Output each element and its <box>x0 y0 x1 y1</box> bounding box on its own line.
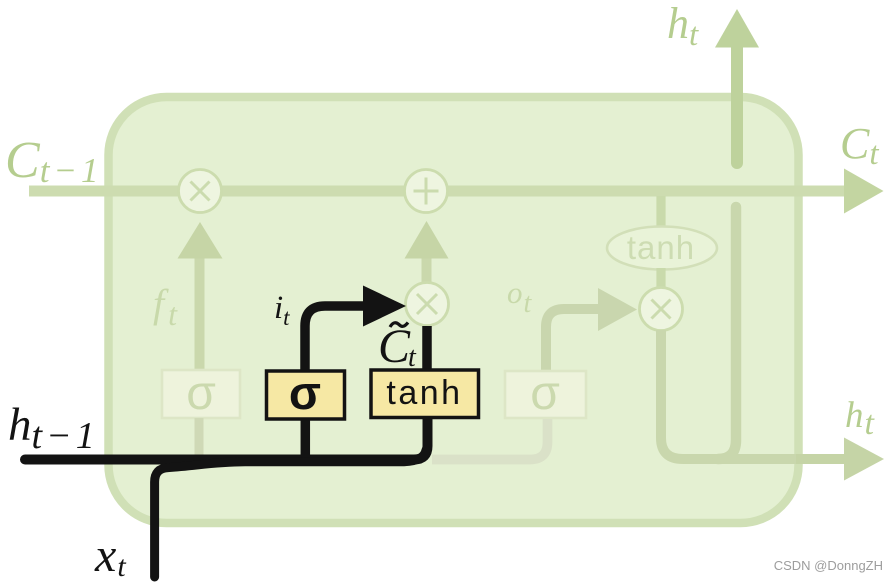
input x_t line from bottom joining input line <box>155 450 426 577</box>
svg-text:xt: xt <box>94 529 126 582</box>
cell body rounded rectangle <box>109 97 799 523</box>
svg-text:σ: σ <box>530 367 560 420</box>
svg-text:σ: σ <box>186 367 216 420</box>
forget gate line below sigma box <box>195 418 204 456</box>
input line h_{t-1} horizontal with turn up into tanh box <box>25 417 428 460</box>
svg-text:tanh: tanh <box>627 229 695 266</box>
svg-text:Ct: Ct <box>840 119 879 172</box>
tanh ellipse (faded) <box>607 227 717 270</box>
svg-text:CSDN @DonngZH: CSDN @DonngZH <box>774 558 883 573</box>
svg-text:tanh: tanh <box>386 374 462 412</box>
forget gate up-arrow into times circle <box>195 252 205 370</box>
svg-text:Ct−1: Ct−1 <box>5 132 103 190</box>
cell state output arrowhead C_t <box>844 169 884 214</box>
plus circle on cell line <box>405 170 448 213</box>
candidate line from times circle down into tanh box <box>422 326 432 370</box>
branch up into input sigma box <box>301 419 311 456</box>
cell state line C (horizontal, faded) <box>29 186 845 197</box>
svg-text:ht: ht <box>667 0 699 53</box>
line from tanh ellipse to output times circle <box>656 268 665 290</box>
output gate sigma box (faded) <box>505 371 586 418</box>
faded input line continuation into output sigma box <box>432 419 548 460</box>
input gate sigma box (yellow) <box>267 371 345 419</box>
svg-text:ht−1: ht−1 <box>8 399 99 457</box>
forget gate sigma box (faded) <box>162 370 240 418</box>
branch up from output line toward top h_t (with gap at cell line) <box>718 207 736 459</box>
candidate up-arrow into plus circle <box>422 252 432 283</box>
output gate path o (faded arrow into times) <box>546 309 600 371</box>
vertical line from cell line down to tanh ellipse <box>656 196 665 228</box>
times circle on cell line (forget) <box>179 170 222 213</box>
svg-text:ht: ht <box>845 395 876 442</box>
input-gate times circle (faded) <box>406 283 449 326</box>
output times circle (faded) <box>640 288 683 331</box>
svg-text:σ: σ <box>289 366 321 419</box>
input gate arrow i_t into times circle <box>305 306 366 371</box>
top h_t arrow body (above cell line gap) <box>731 47 743 163</box>
candidate tanh box (yellow) <box>371 370 479 418</box>
output path: from times circle down then right to h_t arrow <box>661 330 800 459</box>
